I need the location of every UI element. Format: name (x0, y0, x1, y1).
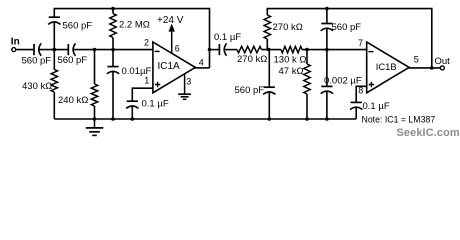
svg-text:In: In (11, 37, 20, 48)
node junction 47k (305, 48, 309, 52)
svg-text:6: 6 (175, 44, 180, 54)
node junction input/430k/top-cap (53, 48, 57, 52)
node top rail junction (111, 7, 115, 11)
wire top-left feedback rail (54, 9, 209, 68)
svg-text:430 kΩ: 430 kΩ (22, 81, 52, 92)
resistor 270k horizontal (237, 46, 262, 52)
node rail junction 560pF (325, 7, 329, 11)
resistor 130k horizontal (281, 46, 302, 52)
wire pin8 to 0.1uF (356, 86, 367, 102)
wire In to C1 (16, 49, 34, 51)
node output/feedback junction (208, 48, 212, 52)
capacitor 0.1uF coupling (219, 43, 226, 55)
wire 0.1uF pin8 to rail (355, 107, 357, 119)
wire cap to R270 (224, 49, 237, 51)
svg-text:560 pF: 560 pF (63, 21, 93, 32)
capacitor 560pF input C2 (68, 43, 75, 55)
svg-text:7: 7 (358, 38, 363, 48)
capacitor 0.1uF pin1 (126, 101, 138, 108)
wire node to 560pF bottom (268, 50, 270, 88)
op-amp IC1B (367, 42, 409, 93)
svg-text:4: 4 (199, 57, 204, 67)
capacitor 560pF input C1 (34, 43, 41, 55)
wire 0.002uF to rail (326, 91, 328, 119)
svg-text:IC1B: IC1B (376, 61, 397, 72)
node junction 240k (93, 48, 97, 52)
node junction 560pF/0.002uF (325, 48, 329, 52)
wire top-right feedback rail (267, 9, 432, 68)
wire ground rail (54, 118, 356, 120)
node feedback junction out (430, 66, 434, 70)
wire pin1 to 0.1uF (132, 88, 153, 101)
resistor 2.2M (112, 9, 114, 14)
node junction 2.2M/0.01uF (111, 48, 115, 52)
wire mid coupling (210, 49, 220, 51)
svg-text:5: 5 (414, 54, 419, 64)
svg-text:560 pF: 560 pF (58, 55, 88, 66)
svg-text:240 kΩ: 240 kΩ (58, 95, 88, 106)
wire 560pF bottom to rail (268, 91, 270, 119)
svg-text:0.1 µF: 0.1 µF (142, 99, 169, 110)
ground main (86, 119, 104, 135)
wire 0.1uF pin1 to rail (131, 105, 133, 119)
capacitor 560pF bottom (263, 87, 275, 94)
wire node to 0.01uF (112, 50, 114, 67)
svg-text:Out: Out (435, 56, 451, 67)
svg-text:560 pF: 560 pF (235, 85, 265, 96)
svg-text:+24 V: +24 V (157, 15, 184, 26)
resistor 47k (306, 50, 308, 64)
svg-text:270 kΩ: 270 kΩ (237, 54, 267, 65)
capacitor 560pF top-right (321, 24, 333, 31)
svg-text:SeekIC.com: SeekIC.com (397, 127, 460, 139)
node rail junctions (93, 117, 97, 121)
svg-text:2.2 MΩ: 2.2 MΩ (119, 20, 150, 31)
wire node to 0.002uF (326, 50, 328, 87)
svg-text:270 kΩ: 270 kΩ (273, 22, 303, 33)
node In terminal (11, 37, 20, 52)
svg-text:560 pF: 560 pF (332, 22, 362, 33)
svg-text:Note: IC1 = LM387: Note: IC1 = LM387 (362, 115, 436, 125)
svg-text:0.1 µF: 0.1 µF (363, 101, 390, 112)
node Out terminal (435, 56, 451, 70)
wire 0.01uF to ground rail (112, 71, 114, 119)
svg-text:47 kΩ: 47 kΩ (279, 66, 304, 77)
resistor 240k (94, 50, 96, 84)
op-amp IC1A (153, 42, 195, 93)
wire rail to 560pF top-right (326, 9, 328, 24)
resistor 430k (53, 50, 55, 70)
resistor 270k vertical (264, 15, 270, 39)
capacitor 0.1uF pin8 (350, 102, 362, 109)
ground pin3 (178, 74, 191, 99)
supply +24V arrow pin6 (157, 15, 184, 54)
svg-text:1: 1 (144, 76, 149, 86)
wire IC1B output pin5 (408, 67, 440, 69)
capacitor 560pF top feedback (48, 17, 60, 24)
svg-text:3: 3 (186, 77, 191, 87)
node junction R270v/560pF (267, 48, 271, 52)
wire 560pF to mid node (326, 28, 328, 50)
wire top cap to input node (53, 21, 55, 49)
wire C2 to node (73, 49, 153, 51)
capacitor 0.002uF (321, 86, 333, 93)
wire IC1A output pin4 (195, 67, 210, 69)
svg-text:560 pF: 560 pF (22, 56, 52, 67)
capacitor 0.01uF (107, 67, 119, 74)
wire C1 to C2 (39, 49, 69, 51)
svg-text:0.1 µF: 0.1 µF (214, 32, 241, 43)
svg-text:2: 2 (144, 38, 149, 48)
svg-text:IC1A: IC1A (158, 61, 181, 72)
svg-text:130 k Ω: 130 k Ω (274, 54, 307, 65)
svg-text:0.002 µF: 0.002 µF (324, 75, 362, 86)
